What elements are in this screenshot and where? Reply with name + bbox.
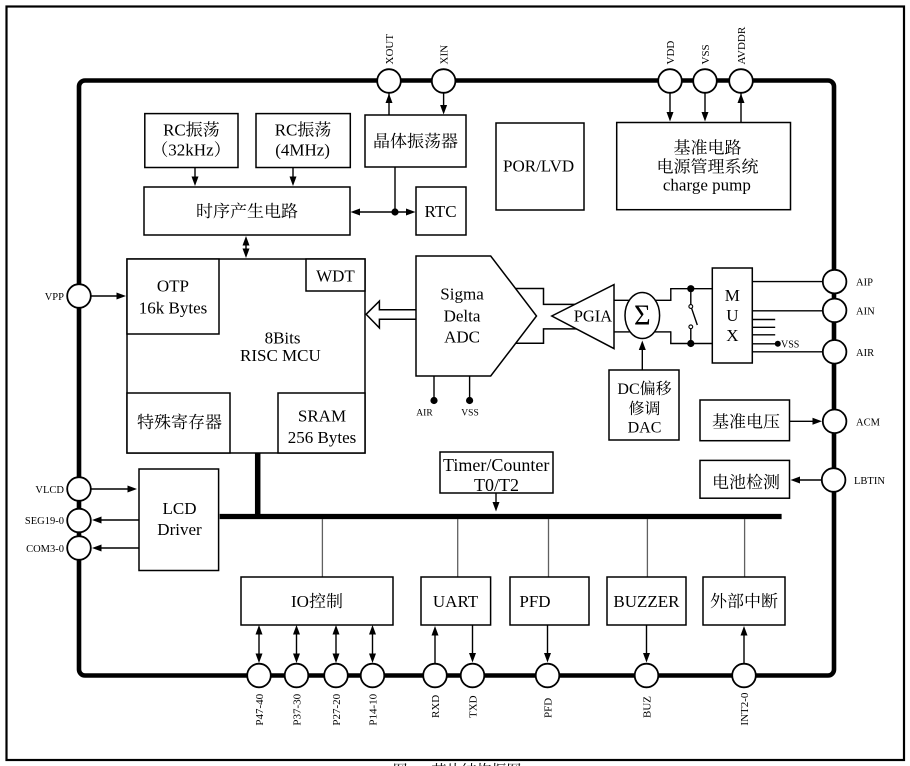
wire XOUT stub from crystal osc	[386, 93, 393, 118]
wire VSS stub into power block	[702, 93, 709, 122]
block POR/LVD	[496, 123, 584, 210]
block MUX	[712, 268, 752, 363]
svg-text:Sigma: Sigma	[440, 285, 484, 304]
block RTC	[416, 187, 466, 235]
wire MUX to AIR	[753, 351, 823, 353]
wire PGIA to adder bottom	[614, 331, 630, 333]
wire MUX to AIN	[753, 310, 823, 312]
wire bus to UART	[457, 519, 459, 577]
svg-text:BUZZER: BUZZER	[613, 592, 680, 611]
pin P37-30	[285, 664, 309, 726]
wire DAC to sigma adder	[639, 341, 646, 371]
svg-text:IO: IO	[291, 592, 309, 611]
svg-text:Driver: Driver	[157, 520, 202, 539]
block special registers	[127, 393, 230, 453]
svg-text:P14-10: P14-10	[367, 693, 379, 725]
bus main horizontal bar	[220, 514, 782, 519]
pin VSS	[693, 44, 717, 92]
pin INT2-0	[732, 664, 756, 726]
svg-text:ADC: ADC	[444, 328, 480, 347]
svg-text:VSS: VSS	[700, 44, 712, 64]
svg-text:M: M	[725, 286, 740, 305]
pin AIP	[823, 270, 873, 294]
svg-text:VPP: VPP	[45, 292, 64, 303]
svg-text:U: U	[726, 306, 738, 325]
pin TXD	[461, 664, 485, 718]
svg-text:P37-30: P37-30	[291, 693, 303, 725]
svg-text:16k Bytes: 16k Bytes	[139, 299, 207, 318]
block 8bits RISC MCU	[127, 259, 365, 453]
svg-text:BUZ: BUZ	[641, 696, 653, 718]
pin LBTIN	[822, 468, 886, 492]
block RC oscillator 4MHz	[256, 114, 350, 168]
block UART	[421, 577, 491, 625]
pin XIN	[432, 45, 456, 93]
block timing generator	[144, 187, 350, 235]
wire XIN stub to crystal osc	[440, 93, 447, 115]
block external interrupt	[703, 577, 785, 625]
svg-text:POR/LVD: POR/LVD	[503, 157, 574, 176]
svg-text:AVDDR: AVDDR	[736, 26, 748, 64]
wire IO to P14-10	[369, 625, 376, 663]
pin AIR	[823, 340, 874, 364]
svg-text:VDD: VDD	[665, 41, 677, 65]
wire adder to switch top	[655, 289, 712, 301]
wire timing to MCU double arrow	[243, 236, 250, 258]
svg-text:XIN: XIN	[439, 45, 451, 65]
svg-text:SEG19-0: SEG19-0	[25, 516, 64, 527]
wire RC4M to timing	[290, 167, 297, 186]
pin XOUT	[377, 34, 401, 93]
svg-text:LCD: LCD	[163, 499, 197, 518]
block WDT	[306, 259, 365, 291]
block PFD	[510, 577, 589, 625]
svg-text:T0/T2: T0/T2	[474, 475, 519, 495]
wire adder to switch bottom	[655, 331, 712, 343]
wire LCD driver to COM3-0	[92, 545, 139, 552]
svg-text:WDT: WDT	[316, 267, 355, 286]
block BUZZER	[607, 577, 686, 625]
svg-text:VLCD: VLCD	[35, 485, 64, 496]
wire MUX stub 2	[753, 326, 776, 328]
svg-text:PGIA: PGIA	[574, 307, 613, 326]
svg-text:(4MHz): (4MHz)	[275, 141, 330, 160]
label VSS under ADC	[461, 409, 478, 419]
svg-text:LBTIN: LBTIN	[854, 476, 885, 487]
svg-text:RXD: RXD	[430, 695, 442, 718]
block voltage reference	[700, 400, 790, 441]
wire RXD to UART	[432, 626, 439, 664]
block OTP	[127, 259, 219, 334]
pin SEG19-0	[25, 509, 91, 533]
caption (clipped)	[394, 763, 520, 766]
svg-text:VSS: VSS	[461, 409, 478, 419]
block DC offset trim DAC	[609, 370, 679, 440]
label 8Bits RISC MCU	[240, 329, 321, 366]
svg-text:TXD: TXD	[467, 695, 479, 718]
svg-text:charge pump: charge pump	[663, 176, 751, 195]
pin VDD	[658, 41, 682, 93]
svg-text:AIR: AIR	[416, 409, 433, 419]
wire AVDDR stub from power block	[738, 93, 745, 122]
svg-text:AIP: AIP	[856, 278, 873, 289]
pin P27-20	[324, 664, 348, 726]
svg-text:XOUT: XOUT	[384, 34, 396, 65]
svg-text:PFD: PFD	[542, 698, 554, 718]
wire PFD box to PFD pin	[544, 625, 551, 663]
svg-text:DC: DC	[617, 381, 639, 398]
pin P14-10	[361, 664, 385, 726]
wire VDD stub into power block	[667, 93, 674, 122]
svg-text:RC: RC	[275, 121, 298, 140]
pin COM3-0	[26, 536, 91, 560]
svg-text:Σ: Σ	[634, 301, 651, 332]
svg-text:AIN: AIN	[856, 306, 875, 317]
wire IO to P37-30	[293, 625, 300, 663]
pin RXD	[423, 664, 447, 718]
svg-text:SRAM: SRAM	[298, 407, 346, 426]
wire crystal osc down to RTC line	[394, 167, 396, 212]
wire bus to ext interrupt	[744, 519, 746, 577]
wire timer to bus	[493, 493, 500, 512]
pin AVDDR	[729, 26, 753, 93]
block power management	[617, 123, 791, 210]
switch SW1	[689, 289, 697, 344]
wire MUX stub 3	[753, 334, 776, 336]
block IO control	[241, 577, 393, 625]
svg-text:RTC: RTC	[425, 202, 457, 221]
pin BUZ	[635, 664, 659, 718]
wire PGIA to adder top	[614, 299, 630, 301]
pin P47-40	[247, 664, 271, 726]
wire UART to TXD	[469, 625, 476, 663]
block LCD driver	[139, 469, 219, 571]
svg-text:P27-20: P27-20	[331, 693, 343, 725]
wire IO to P27-20	[333, 625, 340, 663]
svg-text:RC: RC	[163, 121, 186, 140]
wire BUZZER to BUZ	[643, 625, 650, 663]
wire timing-RTC double arrow	[351, 209, 416, 216]
wire vref to ACM	[790, 418, 823, 425]
wire INT2-0 to ext interrupt	[741, 626, 748, 664]
svg-text:X: X	[726, 326, 738, 345]
svg-text:UART: UART	[433, 592, 479, 611]
svg-text:COM3-0: COM3-0	[26, 544, 64, 555]
svg-text:P47-40: P47-40	[254, 693, 266, 725]
wire MUX VSS stub	[753, 341, 781, 347]
svg-text:8Bits: 8Bits	[265, 329, 301, 348]
node switch bottom junction	[687, 340, 694, 347]
wire bus to PFD	[548, 519, 550, 577]
node switch top junction	[687, 285, 694, 292]
svg-text:AIR: AIR	[856, 348, 874, 359]
pin AIN	[823, 299, 875, 323]
wire bus to IO control	[321, 519, 323, 577]
block crystal oscillator	[365, 115, 466, 167]
svg-text:OTP: OTP	[157, 277, 189, 296]
label VSS at MUX	[781, 340, 799, 351]
wire RC32k to timing	[192, 167, 199, 186]
svg-text:Timer/Counter: Timer/Counter	[443, 455, 549, 475]
label AIR under ADC	[416, 409, 433, 419]
svg-text:32kHz: 32kHz	[168, 141, 214, 160]
wire MUX stub 1	[753, 319, 776, 321]
wire LCD driver to SEG19-0	[92, 517, 139, 524]
block SRAM	[278, 393, 365, 453]
svg-text:ACM: ACM	[856, 417, 881, 428]
wire LBTIN to battery detect	[791, 477, 822, 484]
wire IO to P47-40	[256, 625, 263, 663]
svg-text:256 Bytes: 256 Bytes	[288, 428, 356, 447]
wire ADC AIR stub	[430, 376, 437, 404]
block battery detect	[700, 460, 790, 498]
block RC oscillator 32kHz	[145, 114, 238, 168]
wire ADC VSS stub	[466, 376, 473, 404]
pin VPP	[45, 284, 91, 308]
wire VLCD to LCD driver	[91, 486, 137, 493]
pin PFD	[536, 664, 560, 718]
block timer/counter	[440, 452, 553, 495]
svg-text:VSS: VSS	[781, 340, 799, 351]
svg-text:DAC: DAC	[628, 420, 662, 437]
wire MCU bus stub	[255, 453, 261, 517]
svg-text:Delta: Delta	[444, 307, 481, 326]
hollow arrow PGIA to ADC	[511, 289, 580, 344]
ADC pentagon	[416, 256, 537, 376]
wire MUX to AIP	[753, 281, 823, 283]
wire VPP to OTP	[91, 293, 126, 300]
pin ACM	[823, 410, 881, 434]
wire bus to BUZZER	[646, 519, 648, 577]
svg-text:RISC MCU: RISC MCU	[240, 346, 321, 365]
node junction on RTC line	[391, 208, 398, 215]
op-amp PGIA triangle	[552, 285, 614, 349]
svg-text:INT2-0: INT2-0	[739, 692, 751, 725]
pin VLCD	[35, 477, 90, 501]
adder sigma circle	[625, 293, 660, 339]
hollow arrow ADC to MCU	[366, 301, 420, 328]
svg-text:PFD: PFD	[519, 592, 550, 611]
chip boundary	[79, 81, 834, 676]
